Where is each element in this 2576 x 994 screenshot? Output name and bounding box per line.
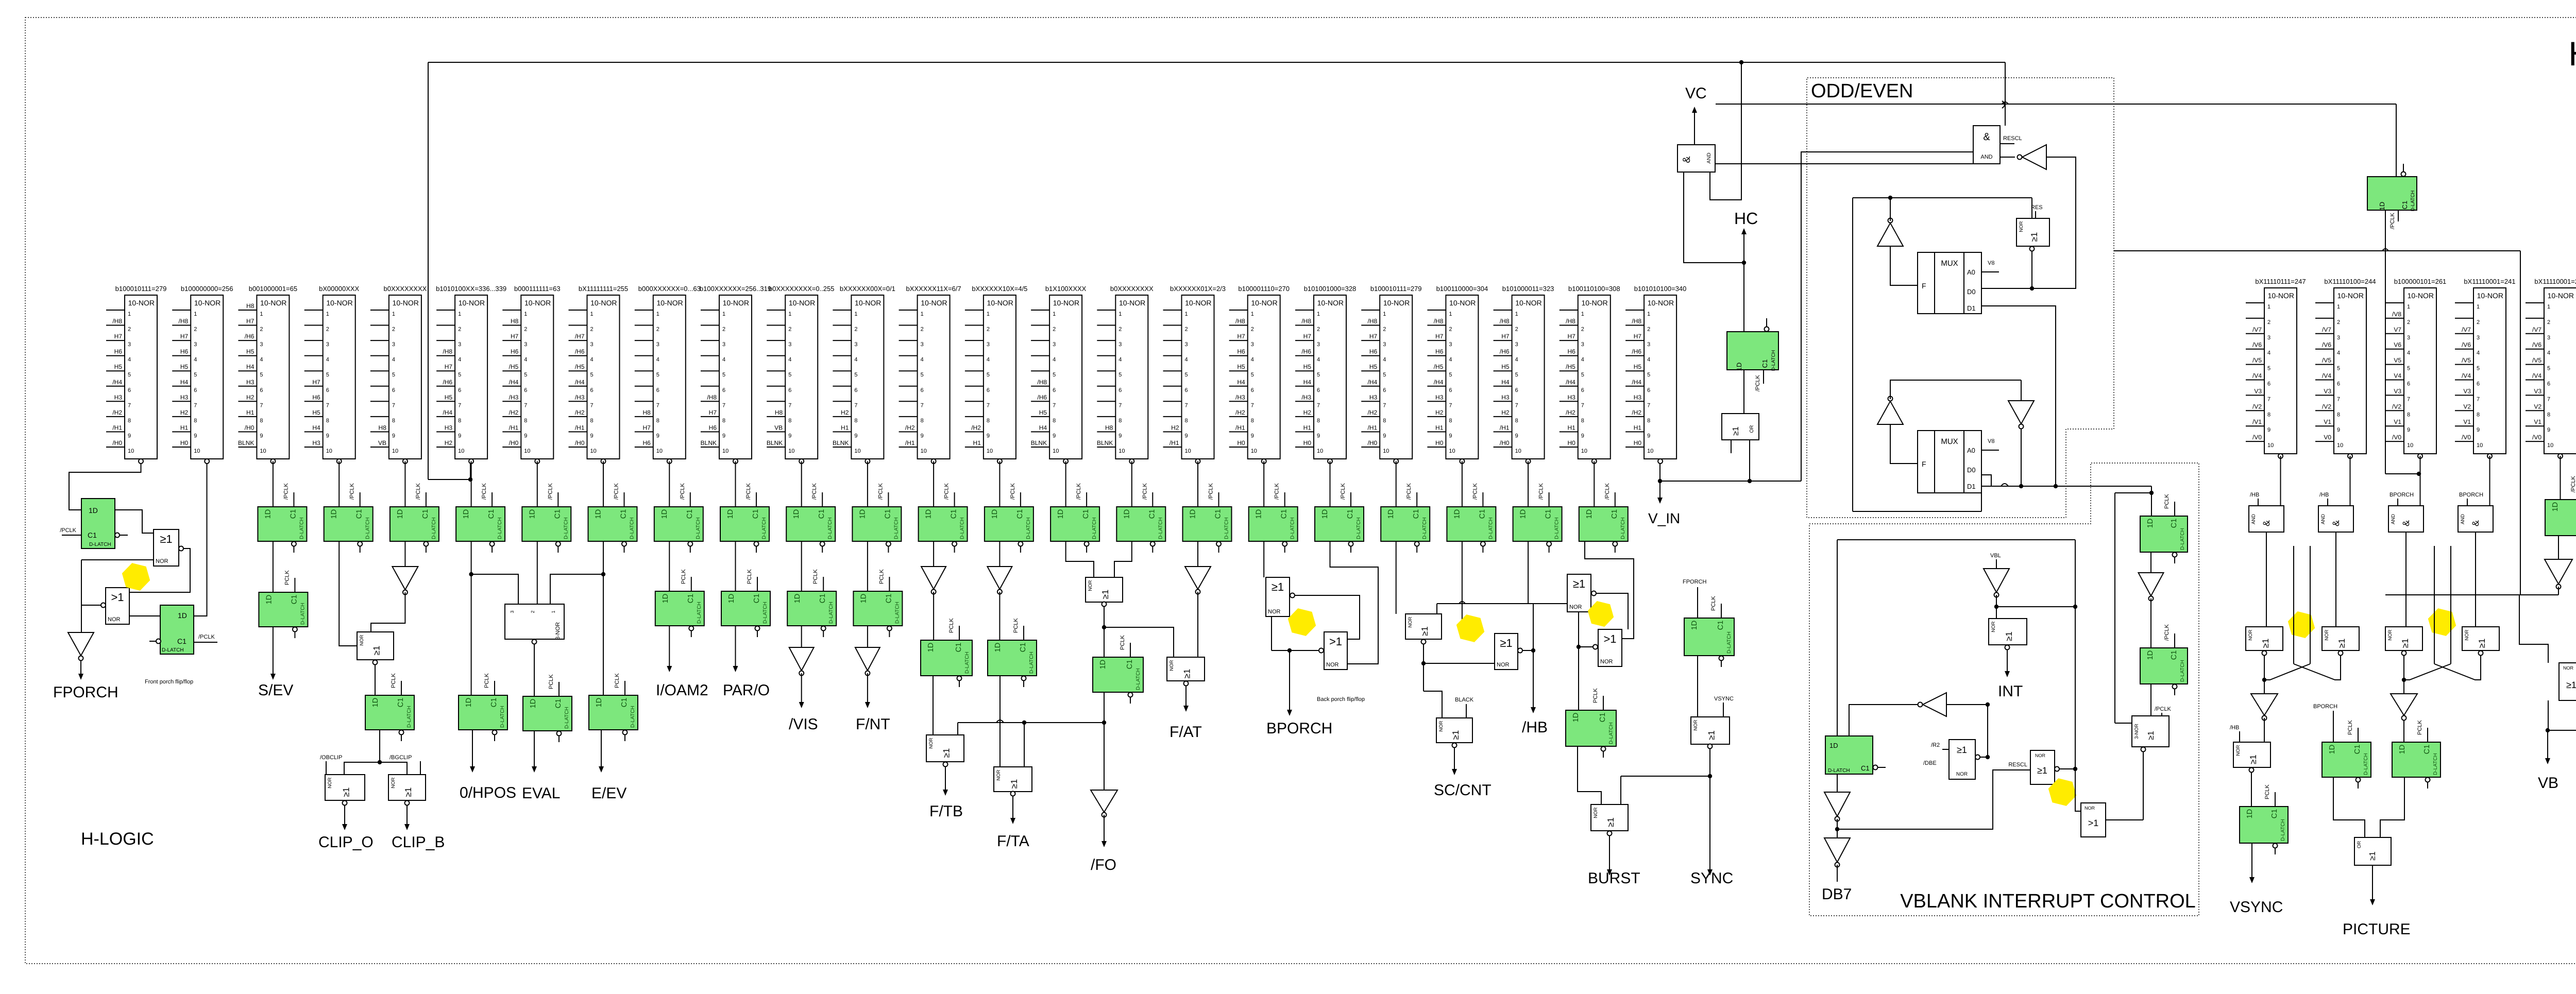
- svg-text:VC: VC: [1685, 85, 1707, 102]
- svg-text:D-LATCH: D-LATCH: [960, 517, 965, 539]
- yellow highlight V pair2: [2428, 608, 2456, 636]
- svg-text:b000XXXXXX=0...63: b000XXXXXX=0...63: [638, 285, 701, 293]
- svg-text:SC/CNT: SC/CNT: [1434, 782, 1492, 799]
- svg-text:BLNK: BLNK: [1097, 439, 1113, 447]
- wire to picture latch1: [2333, 711, 2334, 742]
- svg-text:V8: V8: [1988, 438, 1994, 444]
- wire sc to /HB gate: [1423, 663, 1495, 664]
- svg-text:1D: 1D: [1585, 509, 1594, 519]
- svg-text:≥1: ≥1: [2029, 232, 2039, 242]
- svg-text:NOR: NOR: [1693, 719, 1699, 730]
- NOR gate V pair 1a: [2246, 627, 2283, 656]
- svg-text:1: 1: [458, 311, 461, 317]
- d-latch row1 col 10: [720, 483, 769, 553]
- decoder b001000001=65 (H col 3): [238, 285, 297, 464]
- svg-text:C1: C1: [1082, 509, 1090, 519]
- svg-text:8: 8: [921, 418, 924, 424]
- arrow F/NT: [865, 673, 870, 708]
- label FPORCH small: [1683, 579, 1707, 618]
- svg-text:C1: C1: [2401, 201, 2409, 210]
- arrow F/TA: [1010, 796, 1015, 824]
- svg-text:3: 3: [260, 341, 263, 348]
- svg-text:3: 3: [510, 610, 515, 613]
- svg-text:b101001000=328: b101001000=328: [1304, 285, 1357, 293]
- svg-text:BLNK: BLNK: [1031, 439, 1047, 447]
- svg-text:9: 9: [590, 433, 594, 439]
- d-latch row1 col 13: [919, 483, 968, 553]
- svg-text:1D: 1D: [1572, 713, 1580, 723]
- svg-text:6: 6: [2267, 381, 2270, 387]
- d-latch vblank: [1825, 736, 1886, 774]
- svg-text:/H0: /H0: [245, 424, 255, 431]
- svg-text:1D: 1D: [1690, 621, 1699, 630]
- wire V_IN to ODD/EVEN AND: [1801, 152, 1973, 481]
- svg-text:5: 5: [128, 372, 131, 378]
- svg-text:/PCLK: /PCLK: [283, 483, 289, 500]
- wire latch2 to inverter F/NT: [867, 626, 868, 647]
- svg-text:10: 10: [987, 448, 993, 454]
- wire latch A to inverter: [2150, 552, 2151, 573]
- svg-text:H4: H4: [1501, 379, 1510, 386]
- decoder b100010111=279 (H col 20): [1361, 285, 1421, 464]
- svg-text:9: 9: [2337, 427, 2340, 433]
- wire decoder col 12 output to latch: [867, 461, 868, 507]
- wire decoder col 6 output to latch: [471, 461, 472, 507]
- svg-text:1: 1: [1185, 311, 1188, 317]
- wire col9 latch1 to latch2: [669, 541, 670, 591]
- svg-text:/H0: /H0: [112, 439, 122, 447]
- svg-text:MUX: MUX: [1941, 259, 1958, 268]
- svg-text:H6: H6: [1369, 348, 1378, 355]
- svg-text:H3: H3: [1501, 393, 1510, 401]
- svg-text:8: 8: [392, 418, 395, 424]
- svg-text:9: 9: [656, 433, 659, 439]
- svg-text:4: 4: [590, 357, 594, 363]
- wire col8 latch1 to latch2: [603, 541, 604, 695]
- svg-text:VSYNC: VSYNC: [2230, 899, 2283, 916]
- svg-text:SYNC: SYNC: [1690, 870, 1733, 887]
- svg-text:≥1: ≥1: [1573, 577, 1585, 590]
- wire V_IN node: [1658, 464, 1801, 483]
- svg-text:1D: 1D: [792, 509, 801, 519]
- label 0/HPOS: [460, 784, 516, 801]
- svg-text:H1: H1: [1634, 424, 1642, 431]
- svg-text:7: 7: [1118, 402, 1122, 408]
- svg-text:/PCLK: /PCLK: [1010, 483, 1016, 500]
- NOR gate V pair 2a: [2385, 627, 2422, 656]
- svg-text:C1: C1: [1148, 509, 1156, 519]
- d-latch EVAL row2: [523, 674, 572, 742]
- svg-text:5: 5: [458, 372, 461, 378]
- label V8 mux2: [1981, 438, 1999, 450]
- wire burst latch to NOR: [1578, 746, 1601, 804]
- svg-text:bXXXXXX00X=0/1: bXXXXXX00X=0/1: [840, 285, 895, 293]
- svg-text:1: 1: [2477, 304, 2480, 310]
- svg-text:C1: C1: [884, 509, 892, 519]
- wire RESCL latch down: [2385, 210, 2421, 476]
- svg-text:2: 2: [590, 327, 594, 333]
- wire net to NOR F/TB in2: [957, 723, 958, 735]
- svg-text:H2: H2: [1171, 424, 1179, 431]
- svg-text:D1: D1: [1967, 483, 1976, 490]
- svg-text:1: 1: [987, 311, 990, 317]
- svg-text:/V0: /V0: [2252, 434, 2262, 441]
- NOR gate CLIP_B: [388, 775, 426, 806]
- svg-text:2: 2: [2337, 319, 2340, 325]
- svg-text:/V6: /V6: [2532, 341, 2541, 349]
- label /OBCLIP: [320, 755, 342, 775]
- wire latch2 to inverter /VIS: [801, 626, 802, 647]
- svg-text:C1: C1: [1214, 509, 1223, 519]
- svg-text:5: 5: [2547, 366, 2550, 372]
- svg-text:H3: H3: [180, 393, 189, 401]
- wire vblank right column: [2115, 486, 2154, 723]
- svg-text:4: 4: [458, 357, 461, 363]
- svg-text:/V7: /V7: [2462, 326, 2471, 333]
- wire col23 latch1 to burst R: [1585, 541, 1634, 639]
- svg-text:b001000001=65: b001000001=65: [249, 285, 297, 293]
- svg-text:/H8: /H8: [1235, 318, 1245, 325]
- d-latch row1 col 16: [1116, 483, 1165, 553]
- svg-text:10: 10: [128, 448, 134, 454]
- svg-text:1: 1: [1383, 311, 1386, 317]
- svg-text:D-LATCH: D-LATCH: [89, 542, 111, 547]
- svg-text:bXXXXXX01X=2/3: bXXXXXX01X=2/3: [1170, 285, 1226, 293]
- svg-text:H7: H7: [1435, 333, 1444, 340]
- wire HC node down: [1743, 263, 1744, 332]
- svg-text:H3: H3: [1634, 393, 1642, 401]
- svg-text:/H1: /H1: [1368, 424, 1378, 431]
- svg-text:3-NOR: 3-NOR: [2134, 724, 2140, 739]
- svg-text:≥1: ≥1: [160, 533, 172, 545]
- svg-text:b1X100XXXX: b1X100XXXX: [1045, 285, 1087, 293]
- ODD/EVEN dotted outline: [1807, 78, 2114, 518]
- NOR gate VB a: [2559, 663, 2576, 700]
- svg-text:10-NOR: 10-NOR: [1383, 299, 1410, 307]
- label V8 mux1: [1981, 260, 1999, 272]
- wire latch F/TA down: [996, 676, 1004, 767]
- svg-text:10-NOR: 10-NOR: [1251, 299, 1277, 307]
- svg-text:NOR: NOR: [2464, 629, 2470, 640]
- svg-text:/H8: /H8: [1434, 318, 1444, 325]
- svg-text:3: 3: [2337, 335, 2340, 341]
- svg-text:10: 10: [722, 448, 728, 454]
- label BPORCH: [1266, 720, 1332, 737]
- svg-text:NOR: NOR: [1569, 604, 1582, 610]
- svg-text:HC: HC: [1734, 209, 1758, 228]
- svg-text:b100010111=279: b100010111=279: [115, 285, 167, 293]
- svg-text:H8: H8: [775, 409, 783, 416]
- yellow highlight front porch: [122, 563, 150, 591]
- svg-text:≥1: ≥1: [2261, 639, 2270, 648]
- svg-text:BLNK: BLNK: [238, 439, 254, 447]
- svg-text:1: 1: [2337, 304, 2340, 310]
- svg-text:3: 3: [1647, 341, 1650, 348]
- svg-text:10-NOR: 10-NOR: [2268, 292, 2294, 300]
- svg-text:7: 7: [1449, 402, 1452, 408]
- svg-text:10-NOR: 10-NOR: [1185, 299, 1211, 307]
- svg-text:7: 7: [2407, 396, 2410, 402]
- svg-text:1D: 1D: [371, 698, 380, 708]
- wire latch to NOR F/TB: [933, 676, 934, 735]
- label CLIP_B: [392, 834, 445, 851]
- svg-text:1: 1: [2547, 304, 2550, 310]
- svg-text:1D: 1D: [2328, 745, 2336, 755]
- svg-text:3: 3: [128, 341, 131, 348]
- svg-text:1: 1: [1053, 311, 1056, 317]
- svg-text:FPORCH: FPORCH: [53, 684, 118, 701]
- svg-text:AND: AND: [1980, 154, 1992, 160]
- svg-text:10: 10: [1383, 448, 1389, 454]
- NOR gate SYNC: [1691, 717, 1730, 749]
- VBLANK dotted outline: [1809, 463, 2199, 916]
- svg-text:8: 8: [590, 418, 594, 424]
- svg-text:H-LOGIC: H-LOGIC: [81, 829, 154, 849]
- wire VC AND out to ODD/EVEN AND: [1715, 163, 1973, 164]
- svg-text:2: 2: [1317, 327, 1320, 333]
- svg-text:/H6: /H6: [1632, 348, 1641, 355]
- wire bporch S out to R: [1295, 595, 1360, 639]
- svg-text:bX11110001=241: bX11110001=241: [2534, 278, 2576, 285]
- svg-text:1D: 1D: [1453, 509, 1461, 519]
- svg-text:3: 3: [987, 341, 990, 348]
- decoder b100000000=256 (H col 2): [172, 285, 233, 464]
- wire decoder col 8 output to latch: [603, 461, 604, 507]
- svg-text:1: 1: [326, 311, 329, 317]
- svg-text:C1: C1: [1611, 509, 1619, 519]
- svg-text:4: 4: [656, 357, 659, 363]
- svg-text:/BGCLIP: /BGCLIP: [389, 755, 412, 761]
- wire burst nor in2: [1621, 776, 1710, 804]
- svg-text:V3: V3: [2254, 387, 2262, 395]
- svg-text:8: 8: [2477, 412, 2480, 418]
- svg-text:1: 1: [194, 311, 197, 317]
- svg-text:/PCLK: /PCLK: [811, 483, 818, 500]
- svg-text:CLIP_B: CLIP_B: [392, 834, 445, 851]
- svg-text:/H5: /H5: [509, 363, 519, 370]
- svg-text:4: 4: [524, 357, 527, 363]
- svg-text:H7: H7: [246, 318, 255, 325]
- svg-text:PCLK: PCLK: [747, 569, 753, 584]
- svg-text:8: 8: [2337, 412, 2340, 418]
- svg-text:6: 6: [2477, 381, 2480, 387]
- svg-text:10-NOR: 10-NOR: [1119, 299, 1145, 307]
- svg-text:3: 3: [1185, 341, 1188, 348]
- svg-text:V2: V2: [2534, 403, 2541, 410]
- d-latch vblank A: [2140, 494, 2188, 563]
- svg-text:7: 7: [1383, 402, 1386, 408]
- svg-text:8: 8: [1053, 418, 1056, 424]
- decoder b101001000=328 (H col 19): [1295, 285, 1356, 464]
- decoder bX11110001=241 (V col 5): [2526, 278, 2576, 458]
- NOR gate bporch S: [1266, 577, 1295, 616]
- svg-text:F/NT: F/NT: [856, 716, 890, 733]
- svg-text:0/HPOS: 0/HPOS: [460, 784, 516, 801]
- svg-text:7: 7: [1515, 402, 1518, 408]
- svg-text:10: 10: [392, 448, 398, 454]
- svg-text:H7: H7: [180, 333, 189, 340]
- svg-text:PCLK: PCLK: [484, 673, 490, 688]
- svg-text:C1: C1: [819, 594, 827, 604]
- svg-text:H6: H6: [114, 348, 123, 355]
- svg-text:H5: H5: [445, 393, 453, 401]
- svg-text:/HB: /HB: [2319, 492, 2329, 498]
- svg-text:9: 9: [1317, 433, 1320, 439]
- svg-text:OR: OR: [2357, 841, 2362, 848]
- svg-text:H0: H0: [1567, 439, 1575, 447]
- svg-text:4: 4: [1383, 357, 1386, 363]
- svg-text:C1: C1: [2353, 745, 2362, 755]
- wire col6 to 3-NOR in1: [471, 574, 518, 605]
- d-latch row1 col 19: [1315, 483, 1364, 553]
- arrow 0/HPOS: [470, 730, 475, 773]
- svg-text:/V2: /V2: [2392, 403, 2401, 410]
- label H-LOGIC: [81, 829, 154, 849]
- label EVAL: [522, 785, 561, 802]
- svg-text:/HB: /HB: [2230, 725, 2239, 731]
- d-latch vblank B: [2140, 624, 2188, 695]
- svg-text:/H8: /H8: [1368, 318, 1378, 325]
- svg-text:PCLK: PCLK: [2347, 720, 2353, 735]
- svg-text:AND: AND: [2460, 514, 2466, 524]
- svg-text:4: 4: [1647, 357, 1650, 363]
- svg-text:VB: VB: [774, 424, 783, 431]
- NOR gate V pair 1b: [2322, 627, 2359, 656]
- svg-text:C1: C1: [1346, 509, 1354, 519]
- svg-text:A0: A0: [1967, 447, 1975, 454]
- svg-text:PCLK: PCLK: [878, 569, 885, 584]
- svg-text:/H1: /H1: [1170, 439, 1179, 447]
- svg-text:/H4: /H4: [1368, 379, 1378, 386]
- label BPORCH V3: [2389, 492, 2414, 506]
- wire latch B to 3-NOR: [2150, 684, 2151, 716]
- wire feedback top mux1: [1853, 196, 2032, 511]
- svg-text:&: &: [1983, 131, 1990, 143]
- svg-text:8: 8: [1317, 418, 1320, 424]
- svg-text:5: 5: [656, 372, 659, 378]
- svg-text:6: 6: [921, 387, 924, 393]
- NOR gate SC/CNT: [1436, 718, 1472, 748]
- arrow SC/CNT: [1452, 747, 1457, 775]
- svg-text:/V4: /V4: [2462, 372, 2471, 380]
- svg-text:6: 6: [1118, 387, 1122, 393]
- svg-text:H6: H6: [511, 348, 519, 355]
- arrow SYNC: [1707, 776, 1713, 876]
- svg-text:BURST: BURST: [1588, 870, 1640, 887]
- svg-text:H7: H7: [1501, 333, 1510, 340]
- svg-text:BPORCH: BPORCH: [2389, 492, 2414, 498]
- svg-text:EVAL: EVAL: [522, 785, 561, 802]
- wire to >1 gate: [2075, 769, 2081, 811]
- wire col11 latch1 to latch2: [801, 541, 802, 591]
- svg-text:5: 5: [987, 372, 990, 378]
- wire col6 latch1 to latch2: [469, 541, 473, 695]
- svg-text:C1: C1: [1412, 509, 1420, 519]
- svg-text:PCLK: PCLK: [681, 569, 687, 584]
- svg-text:8: 8: [524, 418, 527, 424]
- svg-text:NOR: NOR: [1438, 721, 1444, 731]
- wire col18 latch1 to NOR bporch: [1263, 541, 1264, 577]
- svg-text:9: 9: [458, 433, 461, 439]
- svg-text:3: 3: [1118, 341, 1122, 348]
- svg-text:/PCLK: /PCLK: [1472, 483, 1478, 500]
- svg-text:2: 2: [194, 327, 197, 333]
- decoder b000111111=63 (H col 7): [502, 285, 560, 464]
- decoder bX11110001=241 (V col 4): [2455, 278, 2516, 458]
- svg-text:6: 6: [1185, 387, 1188, 393]
- NOR gate >1 vblank: [2081, 803, 2106, 837]
- svg-text:b100110000=304: b100110000=304: [1436, 285, 1488, 293]
- svg-text:BLNK: BLNK: [767, 439, 783, 447]
- wire picture latches to OR: [2333, 777, 2404, 837]
- svg-text:PCLK: PCLK: [548, 674, 554, 689]
- svg-text:NOR: NOR: [2563, 665, 2574, 671]
- wire decoder col 22 output to latch: [1528, 461, 1529, 507]
- wire col8 latch1 branch to 3-NOR in3: [550, 572, 605, 605]
- arrow VC: [1692, 107, 1697, 145]
- svg-text:7: 7: [1647, 402, 1650, 408]
- label VC: [1685, 85, 1707, 102]
- svg-text:PCLK: PCLK: [1013, 618, 1019, 633]
- svg-text:10-NOR: 10-NOR: [1581, 299, 1607, 307]
- NOR gate clip: [357, 632, 394, 665]
- svg-text:D-LATCH: D-LATCH: [1092, 517, 1097, 539]
- inverter F/NT: [855, 647, 880, 676]
- svg-text:4: 4: [1251, 357, 1254, 363]
- AND gate V4: [2458, 506, 2493, 532]
- d-latch row1 col 4: [324, 483, 373, 553]
- svg-text:1D: 1D: [528, 509, 536, 519]
- svg-text:RESCL: RESCL: [2008, 762, 2027, 768]
- svg-text:H7: H7: [642, 424, 651, 431]
- svg-text:2: 2: [1185, 327, 1188, 333]
- svg-text:D-LATCH: D-LATCH: [2433, 753, 2438, 775]
- svg-text:9: 9: [392, 433, 395, 439]
- svg-text:NOR: NOR: [2248, 629, 2253, 640]
- inverter mux2 F: [1877, 380, 2021, 464]
- svg-text:7: 7: [921, 402, 924, 408]
- svg-text:1D: 1D: [1057, 509, 1065, 519]
- svg-text:7: 7: [260, 402, 263, 408]
- svg-text:≥1: ≥1: [2147, 731, 2156, 740]
- svg-text:H6: H6: [1237, 348, 1245, 355]
- svg-text:1: 1: [2267, 304, 2270, 310]
- d-latch clip row3: [365, 673, 414, 741]
- wire AND V2 out: [2335, 532, 2336, 627]
- svg-text:2: 2: [1449, 327, 1452, 333]
- svg-text:D-LATCH: D-LATCH: [1029, 652, 1035, 674]
- d-latch row1 col 15: [1050, 483, 1099, 553]
- d-latch row1 col 20: [1381, 483, 1430, 553]
- svg-text:D-LATCH: D-LATCH: [1224, 517, 1230, 539]
- svg-text:7: 7: [722, 402, 725, 408]
- svg-text:4: 4: [722, 357, 725, 363]
- svg-text:VSYNC: VSYNC: [1714, 696, 1734, 702]
- svg-text:D-LATCH: D-LATCH: [827, 517, 833, 539]
- d-latch HC (rotated): [1727, 318, 1778, 391]
- svg-text:10-NOR: 10-NOR: [1317, 299, 1344, 307]
- svg-text:D-LATCH: D-LATCH: [762, 602, 768, 624]
- inverter odd/even reset: [2018, 145, 2047, 169]
- wire col22 latch1 to burst net: [1528, 541, 1529, 604]
- d-latch row1 col 21: [1447, 483, 1496, 553]
- svg-text:b101010100=340: b101010100=340: [1634, 285, 1687, 293]
- svg-text:≥1: ≥1: [372, 646, 382, 656]
- svg-text:6: 6: [788, 387, 791, 393]
- svg-text:6: 6: [987, 387, 990, 393]
- svg-text:≥1: ≥1: [2004, 631, 2014, 641]
- svg-text:VBLANK INTERRUPT CONTROL: VBLANK INTERRUPT CONTROL: [1900, 890, 2196, 912]
